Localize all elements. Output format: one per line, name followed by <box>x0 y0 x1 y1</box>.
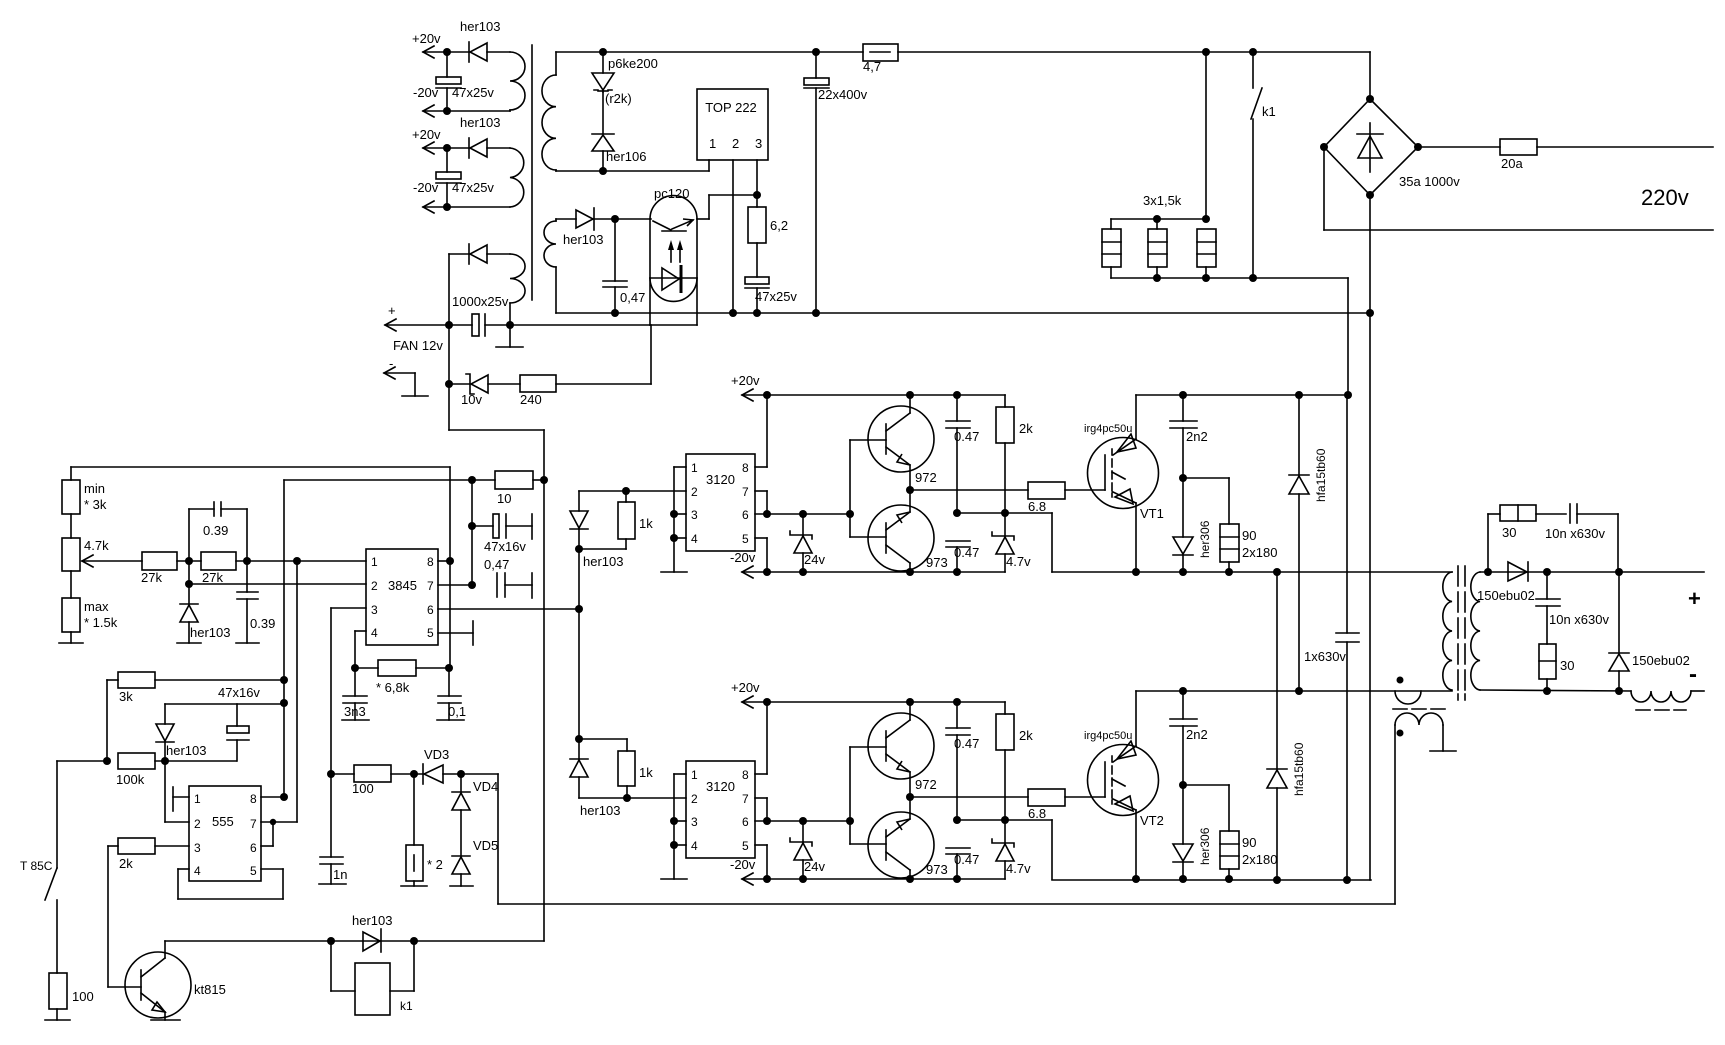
junction dot freewheel node <box>1615 568 1623 576</box>
ground bar below max resistor <box>59 642 83 644</box>
junction dot 555 pin8 Vcc <box>280 793 288 801</box>
wire fan supply to k1 feed line <box>449 384 544 480</box>
IC U1 TOP222 box <box>697 89 768 160</box>
zener 4.7v gate clamp ch2 <box>992 820 1031 879</box>
transistor Q2 973 (PNP low side) ch1 <box>868 490 948 572</box>
resistor min * 3k R5 <box>62 480 107 538</box>
capacitor 47x25v C1 (aux 1) <box>436 52 494 111</box>
svg-text:her103: her103 <box>190 625 230 640</box>
potentiometer 4.7k R6 <box>62 538 109 598</box>
current transformer T3 secondary <box>1395 713 1443 904</box>
resistor 2k R15 (555 pin3) <box>108 838 189 871</box>
svg-text:her306: her306 <box>1198 827 1212 865</box>
svg-text:2k: 2k <box>1019 728 1033 743</box>
capacitor 1n C15 <box>320 857 347 884</box>
svg-text:30: 30 <box>1560 658 1574 673</box>
svg-text:* 2: * 2 <box>427 857 443 872</box>
svg-text:0.39: 0.39 <box>250 616 275 631</box>
wire IGBT VT1 emitter to rail <box>1135 503 1137 572</box>
wire 3120 pins 1,3,4 to ground bar ch1 <box>674 467 686 572</box>
junction dot +20v at 0.47 ch2 <box>953 698 961 706</box>
svg-text:20a: 20a <box>1501 156 1523 171</box>
wire 3120 pin7 to output node ch1 <box>755 491 767 514</box>
svg-text:FAN 12v: FAN 12v <box>393 338 443 353</box>
svg-text:35a 1000v: 35a 1000v <box>1399 174 1460 189</box>
junction dot DC+ rail at hfa15tb60 <box>1295 391 1303 399</box>
svg-text:4: 4 <box>194 864 201 878</box>
diode 150ebu02 output rectifier <box>1477 562 1535 603</box>
junction dot 2n2 at rail ch1 <box>1179 391 1187 399</box>
node +20v output 1 arrow and label <box>412 31 469 58</box>
ground bar below 1n <box>319 883 346 885</box>
junction dot VT2 collector rail at 2n2 <box>1179 687 1187 695</box>
junction dot her103 at pin2 line <box>185 580 193 588</box>
transistor Q4 973 (PNP low side) ch2 <box>868 797 948 879</box>
svg-text:3x1,5k: 3x1,5k <box>1143 193 1182 208</box>
svg-text:k1: k1 <box>1262 104 1276 119</box>
junction dot 27k node <box>185 557 193 565</box>
wire 3x1,5k top bus <box>1111 52 1206 229</box>
resistor max * 1.5k R7 <box>62 598 118 643</box>
junction dot 0.47 bottom ch2 <box>953 875 961 883</box>
ground bar below 100 <box>45 1019 70 1021</box>
svg-text:1k: 1k <box>639 765 653 780</box>
snubber capacitor 10n x630v <box>1545 504 1618 572</box>
svg-text:1: 1 <box>691 768 698 782</box>
svg-text:7: 7 <box>427 579 434 593</box>
junction dot zener node ch1 <box>1001 509 1009 517</box>
svg-text:2: 2 <box>194 817 201 831</box>
svg-text:her103: her103 <box>460 115 500 130</box>
junction dot 3x1,5k top right <box>1202 215 1210 223</box>
svg-text:2x180: 2x180 <box>1242 852 1277 867</box>
svg-text:+20v: +20v <box>731 680 760 695</box>
wire 2k to kt815 base <box>108 846 141 987</box>
svg-text:her103: her103 <box>563 232 603 247</box>
junction dot drive line at 3845 pin6 <box>575 605 583 613</box>
node +20v rail arrow channel 2 <box>731 680 1005 708</box>
svg-text:hfa15tb60: hfa15tb60 <box>1292 742 1306 796</box>
svg-text:irg4pc50u: irg4pc50u <box>1084 730 1132 742</box>
svg-text:2: 2 <box>691 485 698 499</box>
junction dot 6,8k left node <box>351 664 359 672</box>
svg-text:6: 6 <box>742 508 749 522</box>
junction dot 3k at x284 <box>280 676 288 684</box>
junction dot pin1 line at 555 feed <box>293 557 301 565</box>
wire secondary bottom to output choke <box>1480 690 1631 691</box>
svg-text:24v: 24v <box>804 552 825 567</box>
junction dot her306 at rail ch2 <box>1179 875 1187 883</box>
svg-text:0,47: 0,47 <box>484 557 509 572</box>
wire 555 pin8 to Vcc <box>261 796 284 798</box>
svg-text:27k: 27k <box>202 570 223 585</box>
svg-text:100: 100 <box>352 781 374 796</box>
junction dot bridge top corner <box>1366 95 1374 103</box>
junction dot her103 bottom node ch1 <box>575 545 583 553</box>
capacitor 0.39 C8 (feedback) <box>189 502 247 561</box>
ground bar below * 2 <box>401 885 427 887</box>
capacitor 47x16v C12 Vcc filter <box>472 514 532 554</box>
wire base bus of 972/973 ch1 <box>850 440 886 537</box>
svg-text:7: 7 <box>742 792 749 806</box>
junction dot VD3 anode node <box>410 770 418 778</box>
resistor 6.8 gate R ch2 <box>1028 789 1105 821</box>
svg-text:T 85C: T 85C <box>20 859 53 873</box>
fuse 20a F1 <box>1418 139 1713 171</box>
phototransistor inside pc120 <box>653 219 693 231</box>
svg-text:VT2: VT2 <box>1140 813 1164 828</box>
wire 3x1,5k bottom bus to DC+ rail <box>1111 267 1348 395</box>
svg-text:30: 30 <box>1502 525 1516 540</box>
optocoupler U2 pc120 package <box>650 186 697 325</box>
IC U3 3120 gate driver box ch1 <box>686 454 755 551</box>
svg-text:10v: 10v <box>461 392 482 407</box>
resistor * 2 R17 <box>406 774 443 886</box>
wire Vref line y=467 <box>71 467 450 480</box>
wire 3120 pins 1,3,4 to ground bar ch2 <box>674 774 686 879</box>
svg-text:2k: 2k <box>119 856 133 871</box>
phase dot T3 secondary <box>1397 730 1404 737</box>
wire gate return jog ch1 <box>1005 513 1052 572</box>
junction dot -20v at 3120 pin5 ch2 <box>763 875 771 883</box>
IC U6 555 timer box <box>189 786 261 881</box>
winding W3 fan winding <box>510 254 525 325</box>
resistor * 6,8k R10 timing <box>355 660 449 695</box>
svg-text:-20v: -20v <box>730 550 756 565</box>
junction dot 3120 pin6 node ch2 <box>763 817 771 825</box>
capacitor 0.47 lower ch1 <box>946 541 979 572</box>
junction dot snubber R at rail ch2 <box>1225 875 1233 883</box>
svg-text:1k: 1k <box>639 516 653 531</box>
IGBT VT2 irg4pc50u <box>1084 730 1164 828</box>
svg-text:* 1.5k: * 1.5k <box>84 615 118 630</box>
junction dot hfa15tb60 1 bottom <box>1295 687 1303 695</box>
junction dot 3k-100k node <box>103 757 111 765</box>
winding W4 TOP222 primary <box>542 52 556 171</box>
wire primary bottom to TOP222 pin1 <box>556 160 709 171</box>
svg-text:10n x630v: 10n x630v <box>1545 526 1605 541</box>
capacitor 0.47 upper ch2 <box>946 702 979 820</box>
capacitor 0.39 C9 <box>237 561 275 643</box>
wire 3845 pin3 node down x=331 <box>330 774 332 857</box>
wire TOP222 pin3 to feedback node <box>756 160 758 195</box>
junction dot 555 pin6-7 tie <box>270 819 276 825</box>
wire 3120 pin7 to output node ch2 <box>755 798 767 821</box>
resistor 1k R4 ch2 <box>618 739 653 798</box>
wire HV top rail y=52 <box>556 51 1370 53</box>
svg-text:3: 3 <box>691 815 698 829</box>
svg-text:3n3: 3n3 <box>344 704 366 719</box>
svg-text:2n2: 2n2 <box>1186 727 1208 742</box>
wire 3120 pin2 input line ch2 <box>579 797 686 799</box>
junction dot p6ke200 top <box>599 48 607 56</box>
transistor Q1 972 (NPN high side) ch1 <box>868 395 937 490</box>
svg-text:3: 3 <box>755 136 762 151</box>
node FAN 12v minus terminal with ground <box>384 356 428 396</box>
junction dot 10 resistor right node <box>540 476 548 484</box>
junction dot output filter node <box>1543 568 1551 576</box>
junction dot +20v at 3120 pin8 ch1 <box>763 391 771 399</box>
capacitor 3n3 C10 timing <box>343 668 367 720</box>
svg-text:22x400v: 22x400v <box>818 87 868 102</box>
svg-text:5: 5 <box>427 626 434 640</box>
junction dot 3845 pin8 node <box>446 557 454 565</box>
wire her103 top to 555 Vcc line y=704 <box>165 703 284 705</box>
junction dot VD3 cathode node <box>457 770 465 778</box>
junction dot 0.47 mid node ch2 <box>953 816 961 824</box>
junction dot emitter output node ch2 <box>906 793 914 801</box>
svg-text:27k: 27k <box>141 570 162 585</box>
junction dot hfa15tb60 2 bottom <box>1273 876 1281 884</box>
junction dot snubber R at rail ch1 <box>1225 568 1233 576</box>
resistor 2k gate pulldown ch2 <box>996 702 1033 820</box>
svg-text:7: 7 <box>250 817 257 831</box>
junction dot 24v bottom ch1 <box>799 568 807 576</box>
diode VD3 <box>423 747 498 784</box>
junction dot emitter output node ch1 <box>906 486 914 494</box>
svg-text:220v: 220v <box>1641 185 1689 210</box>
junction dot +20v at 972 collector ch1 <box>906 391 914 399</box>
diode her103 D5 input ch2 <box>570 739 620 818</box>
inductor L1 output choke <box>1631 691 1704 710</box>
svg-text:irg4pc50u: irg4pc50u <box>1084 423 1132 435</box>
junction dot bridge bottom corner <box>1366 191 1374 199</box>
junction dot 973 collector at -20v ch1 <box>906 568 914 576</box>
svg-text:973: 973 <box>926 555 948 570</box>
junction dot base bus ch1 <box>846 510 854 518</box>
junction dot bridge left corner <box>1320 143 1328 151</box>
relay coil k1 <box>331 941 414 1015</box>
svg-text:her103: her103 <box>352 913 392 928</box>
svg-text:+20v: +20v <box>412 31 441 46</box>
junction dot hfa15tb60 2 top <box>1273 568 1281 576</box>
svg-text:2x180: 2x180 <box>1242 545 1277 560</box>
junction dot relay line left <box>327 937 335 945</box>
ground symbol fan filter <box>496 325 523 347</box>
junction dot ground rail at 47x25v <box>753 309 761 317</box>
svg-text:-20v: -20v <box>730 857 756 872</box>
wire 3120 pin6 output ch1 <box>755 513 850 515</box>
svg-text:10: 10 <box>497 491 511 506</box>
output RC filter capacitor 10n x630v <box>1536 572 1609 644</box>
wire relay drive line y=941 <box>165 940 544 942</box>
ground bar below 3n3 <box>342 719 369 721</box>
ground bar below 0,1 <box>437 719 464 721</box>
resistor 100 R16 sense filter <box>331 765 423 796</box>
junction dot fan node right <box>506 321 514 329</box>
junction dot on +20v output 1 <box>443 48 451 56</box>
winding W5 optocoupler supply winding <box>544 219 576 313</box>
svg-text:+20v: +20v <box>731 373 760 388</box>
svg-text:6.8: 6.8 <box>1028 806 1046 821</box>
svg-text:5: 5 <box>742 532 749 546</box>
svg-text:1: 1 <box>709 136 716 151</box>
junction dot pin3 sense node <box>327 770 335 778</box>
wire k1 feed vertical x=544 <box>543 480 545 941</box>
diode her106 <box>592 134 646 171</box>
svg-text:6: 6 <box>742 815 749 829</box>
svg-text:3: 3 <box>371 603 378 617</box>
junction dot 0.47 mid node ch1 <box>953 509 961 517</box>
svg-text:3845: 3845 <box>388 578 417 593</box>
transistor Q5 kt815 relay driver <box>125 941 226 1020</box>
wire 0.47 node to zener node ch2 <box>957 819 1005 821</box>
ground bar below VD5 <box>450 885 473 887</box>
junction dot 3120 pin4 tie ch1 <box>670 534 678 542</box>
diode D3 fan rectifier <box>449 244 510 325</box>
ground bar below kt815 <box>151 1019 180 1021</box>
capacitor 0.47 lower ch2 <box>946 848 979 879</box>
svg-text:24v: 24v <box>804 859 825 874</box>
svg-text:+: + <box>1688 586 1701 611</box>
resistor 240 R1 <box>520 375 651 407</box>
bridge rectifier 35a 1000v diamond <box>1324 99 1460 195</box>
resistor 1,5k Ra (of 3x1,5k) <box>1102 229 1121 267</box>
wire 3120 pin8 to +20v ch2 <box>755 702 767 774</box>
svg-text:47x25v: 47x25v <box>755 289 797 304</box>
svg-text:VT1: VT1 <box>1140 506 1164 521</box>
svg-text:47x25v: 47x25v <box>452 85 494 100</box>
wire bridge minus to primary ground and DC- rail <box>1369 195 1371 880</box>
junction dot k1 bottom <box>1249 274 1257 282</box>
junction dot output filter bottom <box>1543 687 1551 695</box>
resistor 3k R12 <box>107 672 284 761</box>
wire pc120 LED cathode to 240 resistor <box>650 325 652 384</box>
junction dot -20v at 3120 pin5 ch1 <box>763 568 771 576</box>
wiper arrow of 4.7k <box>82 555 142 567</box>
capacitor 47x16v C14 (555) <box>218 685 260 761</box>
svg-text:(r2k): (r2k) <box>605 91 632 106</box>
wire IGBT VT1 collector to rail <box>1135 395 1137 439</box>
zener p6ke200 (transient clamp) <box>592 52 658 133</box>
capacitor 1x630v C7 <box>1304 395 1359 880</box>
zener 4.7v gate clamp ch1 <box>992 513 1031 572</box>
junction dot 3x1,5k bottom middle <box>1153 274 1161 282</box>
ground bar below her103 D6 <box>177 642 201 644</box>
junction dot 3120 pin3 tie ch2 <box>670 817 678 825</box>
resistor 100k R13 <box>116 753 236 787</box>
svg-text:4: 4 <box>691 532 698 546</box>
junction dot 1k bottom node ch2 <box>623 794 631 802</box>
svg-text:2k: 2k <box>1019 421 1033 436</box>
capacitor 47x25v C2 (aux 2) <box>436 148 494 207</box>
wire 3845 pin6 drive output <box>438 608 579 610</box>
svg-text:-20v: -20v <box>413 180 439 195</box>
svg-text:8: 8 <box>250 792 257 806</box>
resistor 4,7 R3 snubber <box>863 44 898 74</box>
junction dot drive node ch2 <box>575 735 583 743</box>
svg-text:90: 90 <box>1242 528 1256 543</box>
wire 555 pin6 to pin7 <box>261 822 273 846</box>
ground bar below 0.39 C9 <box>236 642 259 644</box>
resistor 90 / 2x180 snubber ch1 <box>1183 478 1277 572</box>
wire current sense line to 3845 <box>498 774 1395 904</box>
resistor 1,5k Rb (of 3x1,5k) <box>1148 229 1167 267</box>
current transformer T3 primary loop <box>1395 691 1421 704</box>
svg-text:+20v: +20v <box>412 127 441 142</box>
transformer T2 primary winding <box>1443 572 1452 690</box>
junction dot +20v at 972 collector ch2 <box>906 698 914 706</box>
phase dot T3 primary <box>1397 677 1404 684</box>
current transformer T3 core dashes <box>1393 708 1445 710</box>
svg-text:2: 2 <box>732 136 739 151</box>
capacitor 1000x25v C3 fan filter <box>449 294 650 336</box>
wire 3845 pin7 Vcc node <box>438 480 472 585</box>
zener diode 10v VD1 <box>449 374 520 407</box>
svg-text:8: 8 <box>427 555 434 569</box>
svg-text:6: 6 <box>250 841 257 855</box>
junction dot opto supply node <box>611 215 619 223</box>
node -20v output 1 arrow and label <box>413 85 510 117</box>
svg-text:VD4: VD4 <box>473 779 498 794</box>
svg-text:her103: her103 <box>460 19 500 34</box>
svg-text:2: 2 <box>691 792 698 806</box>
diode her306 snubber ch1 <box>1173 478 1212 572</box>
capacitor 0.47 upper ch1 <box>946 395 979 513</box>
winding W1 aux secondary 1 <box>510 52 525 111</box>
node -20v rail arrow ch2 <box>730 857 1005 885</box>
svg-text:pc120: pc120 <box>654 186 689 201</box>
wire HV rail to bridge plus <box>1369 52 1371 99</box>
wire 3845 pin5 ground <box>438 621 473 645</box>
junction dot on -20v output 1 <box>443 107 451 115</box>
junction dot VT2 emitter at rail <box>1132 875 1140 883</box>
svg-text:1x630v: 1x630v <box>1304 649 1346 664</box>
svg-text:-: - <box>1689 661 1697 688</box>
light arrows inside pc120 <box>668 240 683 262</box>
junction dot 3120 pin6 node ch1 <box>763 510 771 518</box>
svg-text:2: 2 <box>371 579 378 593</box>
svg-text:1n: 1n <box>333 867 347 882</box>
junction dot 1x630v bottom at DC- rail <box>1343 876 1351 884</box>
svg-text:her103: her103 <box>166 743 206 758</box>
svg-text:1: 1 <box>371 555 378 569</box>
junction dot on -20v output 2 <box>443 203 451 211</box>
svg-text:TOP 222: TOP 222 <box>705 100 757 115</box>
svg-text:972: 972 <box>915 777 937 792</box>
junction dot ground rail at 22x400v <box>812 309 820 317</box>
junction dot 24v top ch1 <box>799 510 807 518</box>
resistor 27k R8 <box>141 552 201 585</box>
junction dot 3120 pin4 tie ch2 <box>670 841 678 849</box>
capacitor 2n2 snubber ch2 <box>1170 691 1208 785</box>
svg-text:90: 90 <box>1242 835 1256 850</box>
svg-text:3120: 3120 <box>706 779 735 794</box>
diode her103 D8 relay flyback <box>352 913 392 952</box>
ground bar under 3120 ch2 <box>661 878 687 880</box>
junction dot 10v zener node <box>445 380 453 388</box>
wire VT1 emitter rail to primary y=572 <box>1052 571 1452 573</box>
ground bar T3 secondary <box>1430 750 1456 752</box>
svg-text:max: max <box>84 599 109 614</box>
LED inside pc120 <box>662 265 681 293</box>
snubber RC across rectifier: resistor 30 <box>1488 505 1566 572</box>
junction dot VT1 emitter at rail <box>1132 568 1140 576</box>
junction dot DC- at ground rail <box>1366 309 1374 317</box>
svg-text:10n x630v: 10n x630v <box>1549 612 1609 627</box>
svg-text:5: 5 <box>742 839 749 853</box>
junction dot 24v bottom ch2 <box>799 875 807 883</box>
junction dot fan node left <box>445 321 453 329</box>
zener 24v VD ch2 <box>790 821 825 879</box>
junction dot +20v at 0.47 ch1 <box>953 391 961 399</box>
svg-text:0.47: 0.47 <box>954 852 979 867</box>
svg-text:+: + <box>388 303 396 318</box>
svg-text:1: 1 <box>194 792 201 806</box>
wire primary ground rail y=313 <box>556 312 1371 314</box>
svg-text:VD5: VD5 <box>473 838 498 853</box>
svg-text:4.7k: 4.7k <box>84 538 109 553</box>
